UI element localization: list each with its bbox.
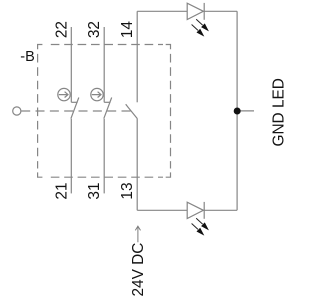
mechanical linkage (dashed) <box>21 110 130 112</box>
wire 31 <box>103 119 105 194</box>
positive-opening symbol (circle-arrow) of contact 22-21 <box>58 88 70 100</box>
wire 21 <box>70 119 72 194</box>
svg-text:32: 32 <box>86 21 103 38</box>
svg-text:13: 13 <box>119 182 136 199</box>
junction node GND LED <box>234 108 241 115</box>
svg-text:24V DC: 24V DC <box>130 243 147 297</box>
svg-text:21: 21 <box>53 182 70 199</box>
svg-text:-B: -B <box>20 49 35 65</box>
wire bottom rail (13 to LED2) <box>137 209 187 211</box>
positive-opening symbol (circle-arrow) of contact 32-31 <box>91 88 103 100</box>
wire 22 <box>70 27 72 102</box>
LED D1 body <box>187 3 203 19</box>
wire right rail <box>236 11 238 210</box>
svg-text:22: 22 <box>53 21 70 38</box>
wire GND stub <box>237 110 254 112</box>
contact -B NC 32-31 <box>104 101 110 103</box>
wire 13 <box>136 119 138 211</box>
actuator circle (pushbutton) <box>13 107 21 115</box>
device outline -B (dashed enclosure) <box>38 45 171 178</box>
arrow of 24V DC pointing to bottom rail <box>135 226 140 242</box>
svg-text:14: 14 <box>119 21 136 39</box>
wire 32 <box>103 27 105 102</box>
svg-text:GND LED: GND LED <box>271 78 288 146</box>
contact -B NC 22-21 <box>71 101 77 103</box>
wire 14 <box>136 11 138 102</box>
contact -B NO 14-13 <box>126 104 138 118</box>
wire top rail (LED1 to right rail) <box>204 10 237 12</box>
LED D2 light arrows <box>192 218 209 235</box>
LED D1 light arrows <box>192 19 209 36</box>
LED D2 body <box>187 202 203 218</box>
svg-text:31: 31 <box>86 182 103 199</box>
wire top rail (14 to LED1) <box>137 10 187 12</box>
wire bottom rail (LED2 to right rail) <box>204 209 237 211</box>
